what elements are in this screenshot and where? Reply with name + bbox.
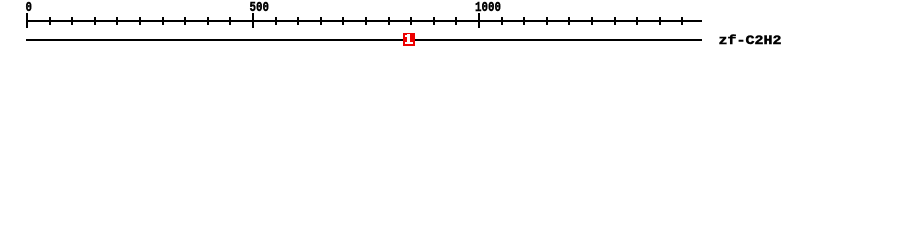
domain box label 1 (white bitmap digit) — [405, 34, 413, 44]
major tick 1000 — [478, 13, 480, 28]
svg-text:zf-C2H2: zf-C2H2 — [719, 33, 782, 48]
protein backbone line — [26, 39, 702, 41]
domain box 1 (zf-C2H2) — [403, 33, 415, 46]
minor ticks — [49, 17, 683, 25]
major tick 500 — [252, 13, 254, 28]
major tick 0 — [26, 13, 28, 28]
ruler axis line — [26, 20, 702, 22]
